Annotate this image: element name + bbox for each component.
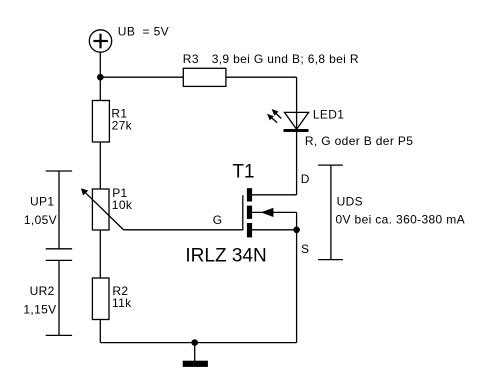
svg-text:UP1: UP1 xyxy=(30,195,54,209)
svg-text:3,9 bei G und B; 6,8 bei R: 3,9 bei G und B; 6,8 bei R xyxy=(212,52,359,66)
svg-text:IRLZ 34N: IRLZ 34N xyxy=(185,245,266,266)
svg-text:27k: 27k xyxy=(112,119,133,133)
svg-text:G: G xyxy=(213,213,223,227)
svg-text:S: S xyxy=(301,242,309,256)
svg-text:1,15V: 1,15V xyxy=(23,302,56,316)
svg-text:UB = 5V: UB = 5V xyxy=(118,25,169,39)
svg-text:D: D xyxy=(301,172,310,186)
svg-text:LED1: LED1 xyxy=(313,108,344,122)
svg-text:R, G oder B der P5: R, G oder B der P5 xyxy=(305,134,413,148)
svg-text:UR2: UR2 xyxy=(30,284,55,298)
svg-text:R3: R3 xyxy=(183,52,199,66)
svg-text:0V bei ca. 360-380 mA: 0V bei ca. 360-380 mA xyxy=(336,212,465,226)
svg-text:10k: 10k xyxy=(112,198,133,212)
svg-text:1,05V: 1,05V xyxy=(24,213,57,227)
svg-text:11k: 11k xyxy=(112,296,132,310)
svg-text:T1: T1 xyxy=(232,161,254,182)
svg-text:UDS: UDS xyxy=(337,194,363,208)
